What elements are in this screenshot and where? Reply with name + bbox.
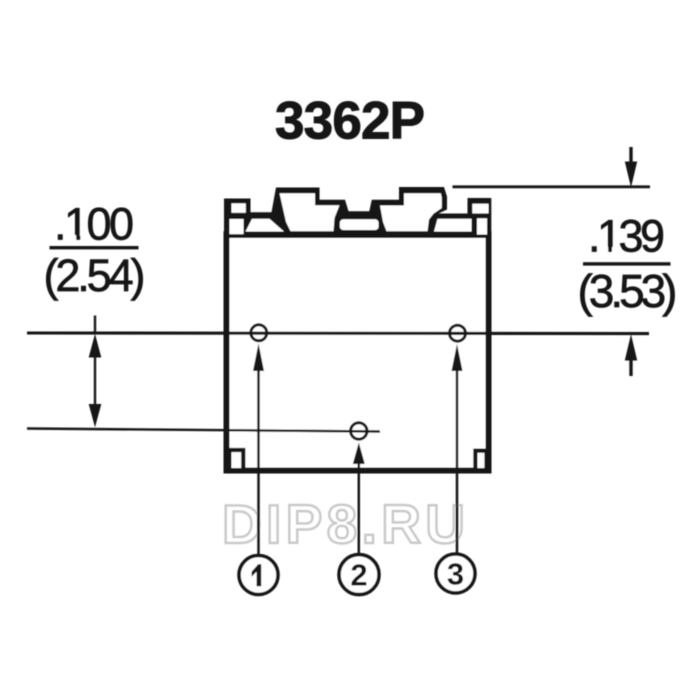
terminal circle 3: [436, 554, 475, 593]
lower-left box white interior: [230, 219, 244, 234]
svg-text:3362P: 3362P: [275, 92, 425, 151]
pin 2 leader arrow: [353, 443, 365, 555]
bottom-left corner notch: [229, 450, 243, 468]
svg-text:2: 2: [350, 558, 367, 593]
tab2 white interior: [472, 204, 488, 214]
tab1 white interior: [232, 203, 246, 213]
right dimension down arrow: [625, 147, 637, 188]
bump2 white interior: [380, 193, 442, 231]
pin 1 leader arrow: [253, 344, 264, 556]
terminal circle 2: [339, 555, 379, 595]
top-right dimension line: [453, 185, 651, 188]
svg-text:3: 3: [447, 557, 464, 592]
svg-text:(2.54): (2.54): [44, 250, 146, 301]
lower-right box white interior: [477, 218, 487, 234]
pin 1 circle: [251, 325, 267, 341]
strip white pill between bumps: [340, 219, 379, 230]
lower pin line (pin 2): [27, 429, 380, 432]
strip white section C: [434, 219, 472, 232]
fraction bar right: [583, 262, 671, 265]
fraction bar left: [50, 246, 139, 249]
right dimension up arrow: [625, 334, 637, 376]
bump1 white interior: [280, 193, 340, 231]
svg-text:.139: .139: [588, 211, 665, 262]
terminal circle 1: [239, 556, 278, 595]
pin 3 leader arrow: [452, 344, 463, 554]
left dimension double arrow: [89, 316, 102, 428]
long pin line (pins 1 and 3): [27, 331, 649, 335]
pin 3 circle: [450, 325, 466, 341]
svg-text:(3.53): (3.53): [578, 265, 678, 317]
trimmer body box: [227, 234, 489, 470]
bottom-right corner notch: [475, 451, 486, 468]
strip white section A: [246, 219, 285, 232]
pin 2 circle: [351, 423, 367, 439]
top cap silhouette: [224, 187, 491, 238]
svg-text:.100: .100: [54, 199, 134, 250]
